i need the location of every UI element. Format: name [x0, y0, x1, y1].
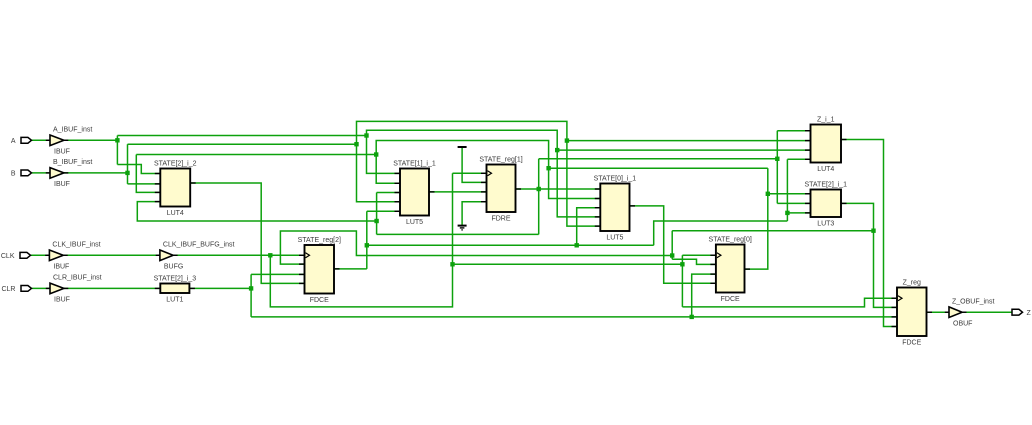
wire A_IBUF out [64, 139, 118, 141]
svg-text:BUFG: BUFG [164, 264, 183, 271]
wire OBUF to Z port [962, 311, 1012, 313]
wire A to LUT4 pin1 [117, 165, 160, 174]
wire STATE2 vertical x366 [366, 211, 368, 269]
svg-text:Z_i_1: Z_i_1 [817, 116, 835, 123]
wire CLR_IBUF to LUT1 [64, 287, 160, 289]
flop STATE_reg[0] FDCE [709, 236, 752, 303]
wire Z_reg Q to OBUF [927, 311, 950, 313]
wire STATE2 branch to LUT5 STATE[0] pin3 [577, 208, 601, 246]
node STATE0 LUT3 tap [766, 192, 770, 196]
wire CLK to STATE_reg0 C [682, 254, 716, 256]
svg-text:LUT5: LUT5 [406, 219, 423, 226]
node A join [364, 133, 368, 137]
wire STATE1 vertical x376 [376, 193, 378, 235]
wire STATE2 line y245 [367, 244, 654, 246]
lut STATE[2]_i_3 LUT1 [154, 275, 197, 303]
node STATE1 y221 join [374, 219, 378, 223]
svg-text:OBUF: OBUF [953, 320, 972, 327]
svg-text:STATE[2]_i_2: STATE[2]_i_2 [154, 160, 197, 167]
svg-text:CLK: CLK [1, 253, 15, 260]
wire STATE1 vertical at Q [538, 159, 540, 235]
wire STATE1 line y221 to LUT4 pin4 [137, 202, 376, 221]
wire CLR port to CLR_IBUF [32, 287, 50, 289]
wire LUT5 STATE1 out to FDRE D [429, 191, 487, 193]
wire A rail to Z_i_1 pin3 [557, 149, 810, 151]
wire CLK rail y264 [453, 263, 683, 265]
svg-text:CLR_IBUF_inst: CLR_IBUF_inst [53, 275, 102, 282]
svg-text:CLK_IBUF_inst: CLK_IBUF_inst [52, 241, 100, 248]
wire B vertical branch [127, 144, 129, 184]
wire B_IBUF out [64, 172, 128, 174]
node CLK branch [268, 253, 272, 257]
svg-text:LUT1: LUT1 [166, 297, 183, 304]
lut STATE[2]_i_1 LUT3 [804, 181, 847, 227]
wire A feedback line y135 [117, 135, 366, 137]
svg-text:LUT4: LUT4 [817, 166, 834, 173]
wire CLK_IBUF to BUFG [63, 254, 160, 256]
node CLR reg0 tap [690, 315, 694, 319]
svg-text:STATE_reg[1]: STATE_reg[1] [479, 156, 522, 163]
svg-text:STATE_reg[2]: STATE_reg[2] [298, 237, 341, 244]
wire CE vertical x672 [671, 231, 673, 260]
wire CLK vertical x682 [681, 255, 683, 307]
node STATE0 y168 tap [546, 166, 550, 170]
svg-text:STATE_reg[0]: STATE_reg[0] [709, 236, 752, 243]
node B branch [125, 171, 129, 175]
wire LUT3 out to Z_reg CE [841, 203, 897, 307]
wire LUT4 out to STATE_reg2 D [190, 183, 304, 283]
flop STATE_reg[1] FDRE [479, 156, 522, 222]
svg-text:B: B [11, 171, 16, 178]
wire STATE2 vertical x787 [786, 159, 788, 221]
node B rail tap [565, 138, 569, 142]
wire B rail to Z_i_1 pin2 [567, 140, 811, 142]
wire BUFG out to STATE_reg2 C [173, 254, 304, 256]
wire CE rail y230 [672, 230, 873, 232]
wire B to LUT5 pins [357, 121, 601, 226]
node STATE1 rail end [775, 157, 779, 161]
wire STATE1 Q to LUT5 STATE[0] pin1 [516, 188, 601, 190]
wire STATE1 return line y234 [377, 233, 539, 235]
wire A vertical branch [116, 136, 118, 165]
wire FDRE R to ground [462, 202, 486, 225]
wire B port to B_IBUF [32, 172, 50, 174]
port Z [1012, 309, 1032, 317]
wire CLR to STATE_reg2 CLR [251, 273, 304, 275]
ground const0 [458, 226, 467, 230]
svg-text:CLK_IBUF_BUFG_inst: CLK_IBUF_BUFG_inst [163, 241, 235, 248]
wire B to LUT4 pin2 [128, 183, 161, 185]
wire power to FDRE CE [462, 148, 486, 183]
buffer A_IBUF_inst [46, 126, 93, 155]
wire CE jog to STATE_reg0 CE [672, 259, 716, 264]
wire CLK to FDRE C [453, 172, 487, 174]
port B [11, 170, 32, 178]
svg-text:CLR: CLR [1, 286, 15, 293]
wire STATE0 line y154 [136, 154, 376, 156]
power const1 [458, 146, 467, 148]
wire STATE0 rail y168 [549, 167, 768, 169]
wire STATE2 to Z_i_1 pin4 [787, 158, 810, 160]
svg-text:Z_OBUF_inst: Z_OBUF_inst [952, 298, 994, 305]
svg-text:LUT3: LUT3 [817, 221, 834, 228]
wire STATE0 to LUT5 pins [376, 141, 600, 199]
wire STATE1 to Z_i_1 pin1 [777, 130, 810, 132]
wire Z_i_1 out to Z_reg D [841, 140, 897, 327]
node CLK reg0 tap [680, 262, 684, 266]
wire LUT1 out [189, 287, 251, 289]
svg-text:STATE[2]_i_1: STATE[2]_i_1 [804, 181, 847, 188]
svg-text:LUT5: LUT5 [606, 235, 623, 242]
flop STATE_reg[2] FDCE [298, 237, 341, 304]
svg-text:IBUF: IBUF [54, 149, 70, 156]
node CE join [670, 253, 674, 257]
svg-text:A: A [11, 138, 16, 145]
buffer CLR_IBUF_inst [46, 275, 102, 304]
svg-text:FDCE: FDCE [902, 340, 921, 347]
wire CLR to STATE_reg0 CLR [692, 274, 716, 317]
flop Z_reg FDCE [892, 279, 933, 346]
lut STATE[2]_i_2 LUT4 [154, 160, 197, 217]
svg-text:IBUF: IBUF [53, 264, 69, 271]
svg-text:STATE[1]_i_1: STATE[1]_i_1 [393, 160, 436, 167]
svg-text:STATE[2]_i_3: STATE[2]_i_3 [154, 275, 197, 282]
node STATE2 Q branch [365, 243, 369, 247]
node STATE2 LUT5 tap [575, 243, 579, 247]
port CLK [1, 252, 31, 260]
node A branch [115, 138, 119, 142]
wire CLK to Z_reg C [682, 298, 897, 307]
svg-text:IBUF: IBUF [54, 181, 70, 188]
wire STATE2 elbow to y221 [654, 221, 788, 245]
wire STATE2 to LUT3 pin3 [787, 212, 810, 214]
port A [11, 137, 32, 145]
buffer B_IBUF_inst [46, 159, 93, 188]
wire STATE0 to LUT4 pin3 [136, 155, 160, 193]
svg-text:LUT4: LUT4 [167, 210, 184, 217]
lut STATE[0]_i_1 LUT5 [594, 175, 637, 241]
node STATE1 Q branch [537, 187, 541, 191]
wire STATE0 to LUT3 pin1 [768, 193, 811, 195]
wire LUT5 STATE0 out to STATE_reg0 D [630, 206, 716, 283]
wire CLR vertical x251 [250, 274, 252, 317]
wire B feedback line y144 [128, 143, 357, 145]
buffer CLK_IBUF_inst [45, 241, 100, 270]
buffer CLK_IBUF_BUFG_inst [156, 241, 235, 270]
wire STATE1 to LUT3 pin2 [777, 202, 810, 204]
svg-text:FDRE: FDRE [491, 216, 510, 223]
buffer Z_OBUF_inst [945, 298, 995, 327]
wire CLK branch down [270, 173, 452, 307]
svg-text:STATE[0]_i_1: STATE[0]_i_1 [594, 175, 637, 182]
svg-text:Z_reg: Z_reg [903, 279, 921, 286]
node B join [354, 142, 358, 146]
node CLR branch [249, 286, 253, 290]
svg-text:FDCE: FDCE [721, 296, 740, 303]
lut STATE[1]_i_1 LUT5 [393, 160, 436, 226]
node A rail tap [555, 148, 559, 152]
port CLR [1, 286, 31, 294]
wire STATE1 vertical to Z_i_1 [776, 131, 778, 204]
wire STATE1 rail y158 [539, 158, 778, 160]
lut Z_i_1 LUT4 [805, 116, 847, 173]
wire STATE2 Q out [334, 268, 367, 270]
wire CE to STATE_reg2 CE [280, 231, 672, 264]
node STATE2 LUT3 tap [785, 211, 789, 215]
wire A to LUT5 STATE[1] pin1 [367, 130, 601, 217]
svg-text:B_IBUF_inst: B_IBUF_inst [53, 159, 92, 166]
wire CLR rail y317 to Z_reg CLR [251, 316, 897, 318]
wire STATE0 from STATE_reg0 Q [745, 168, 768, 269]
wire CLK port to CLK_IBUF [31, 254, 49, 256]
node STATE0 join [374, 152, 378, 156]
node CLK y264 tap [450, 262, 454, 266]
wire STATE2 to LUT5 STATE[1] pin5 [367, 210, 400, 212]
svg-text:FDCE: FDCE [310, 297, 329, 304]
svg-text:Z: Z [1027, 310, 1032, 317]
wire STATE1 to LUT5 STATE[1] pin3 [377, 192, 400, 194]
wire A port to A_IBUF [32, 139, 50, 141]
svg-text:A_IBUF_inst: A_IBUF_inst [53, 126, 92, 133]
svg-text:IBUF: IBUF [54, 297, 70, 304]
node CE LUT3 join [871, 229, 875, 233]
